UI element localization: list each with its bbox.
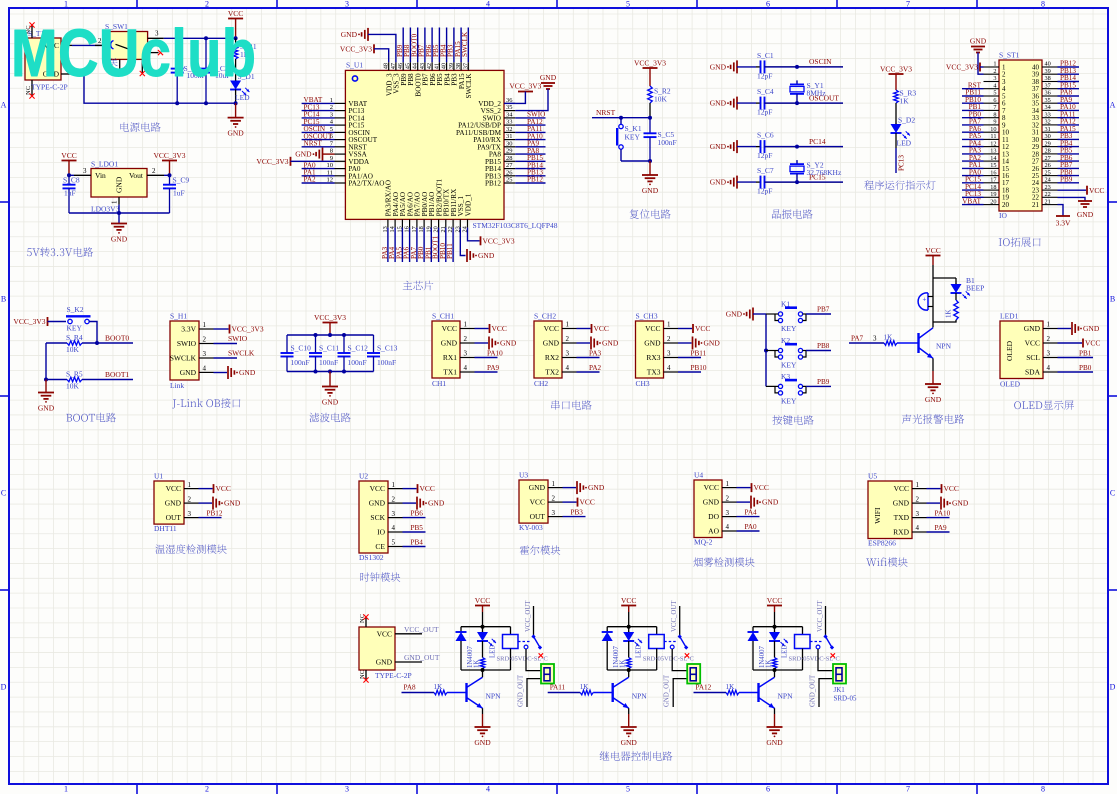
title 电源电路 [120, 122, 160, 132]
svg-text:SWCLK: SWCLK [228, 349, 255, 358]
svg-text:1: 1 [726, 480, 730, 488]
svg-text:GND: GND [704, 339, 721, 348]
svg-text:PB9: PB9 [817, 378, 830, 386]
ground GND filter [322, 372, 339, 407]
svg-text:SWCLK: SWCLK [170, 354, 197, 363]
svg-text:5: 5 [626, 785, 630, 794]
svg-text:PB6: PB6 [411, 510, 424, 518]
svg-text:S_C6: S_C6 [757, 131, 774, 140]
power port VCC relay [621, 596, 636, 627]
module U5 ESP8266 WIFI [868, 472, 927, 548]
svg-text:VCC_OUT: VCC_OUT [671, 600, 678, 632]
svg-text:VCC_3V3: VCC_3V3 [13, 317, 45, 326]
svg-text:PA10: PA10 [487, 350, 503, 358]
power port VCC relay [767, 596, 782, 627]
svg-text:GND: GND [369, 499, 386, 508]
svg-text:PB10: PB10 [691, 364, 707, 372]
svg-text:VCC: VCC [420, 484, 435, 493]
svg-text:23: 23 [1045, 184, 1051, 191]
diode 1N4007 flyback [748, 627, 767, 670]
svg-text:28: 28 [1045, 148, 1051, 155]
svg-text:TX2: TX2 [545, 368, 559, 377]
svg-text:PA9: PA9 [487, 364, 500, 372]
svg-text:6: 6 [993, 97, 996, 104]
ground GND oled [1058, 322, 1100, 335]
power port VCC_3V3 jlink [214, 325, 264, 334]
capacitor S_C11 100nF [309, 335, 339, 372]
svg-text:1: 1 [552, 480, 556, 488]
svg-text:SWIO: SWIO [228, 334, 248, 343]
svg-text:39: 39 [448, 63, 455, 69]
svg-text:VCC: VCC [580, 498, 595, 507]
svg-text:12pF: 12pF [757, 108, 772, 117]
capacitor S_C7 12pF with GND and PC15 [710, 166, 843, 196]
junction dots reset [648, 116, 652, 120]
svg-text:GND: GND [227, 129, 244, 138]
svg-text:OUT: OUT [530, 512, 546, 521]
ground GND boot [38, 380, 55, 413]
svg-text:KY-003: KY-003 [519, 523, 543, 532]
svg-text:VDD_1: VDD_1 [464, 193, 472, 216]
svg-text:PA2/TX/AO: PA2/TX/AO [348, 180, 384, 188]
wire LDO bottom rail [69, 212, 170, 214]
svg-text:GND: GND [478, 251, 495, 260]
svg-text:14: 14 [990, 155, 997, 162]
wire relay top rail [461, 626, 511, 628]
svg-text:4: 4 [566, 364, 570, 372]
module U2 DS1302 [359, 472, 403, 563]
wire alarm top node [933, 277, 956, 279]
svg-text:PA8: PA8 [404, 684, 417, 692]
svg-text:GND: GND [710, 63, 727, 72]
svg-text:S_R5: S_R5 [66, 370, 83, 379]
power port GND MCU top [341, 28, 396, 62]
svg-text:1uF: 1uF [64, 188, 76, 197]
module U3 KY-003 [519, 471, 563, 533]
svg-text:VCC: VCC [704, 483, 719, 492]
svg-text:GND: GND [165, 499, 182, 508]
LED S_D2 [891, 116, 916, 149]
svg-text:8: 8 [1041, 0, 1045, 9]
svg-text:3.3V: 3.3V [1056, 219, 1071, 228]
power port VCC_3V3 IO pin1 [946, 63, 984, 72]
svg-text:35: 35 [1045, 97, 1051, 104]
svg-text:2: 2 [203, 336, 207, 344]
relay contact switch [664, 600, 689, 658]
svg-text:38: 38 [1045, 75, 1051, 82]
svg-text:1: 1 [111, 200, 119, 204]
wire GND_OUT relay [518, 674, 542, 707]
resistor S_R1 1K [233, 38, 257, 80]
svg-text:B: B [1, 295, 6, 304]
svg-text:32: 32 [1045, 119, 1051, 126]
svg-text:5: 5 [392, 539, 396, 547]
svg-text:OSCIN: OSCIN [809, 57, 832, 66]
svg-text:PC14: PC14 [809, 137, 826, 146]
svg-text:SWCLK: SWCLK [461, 31, 469, 57]
svg-text:2: 2 [993, 68, 996, 75]
svg-text:4: 4 [916, 524, 920, 532]
svg-text:34: 34 [506, 111, 513, 118]
svg-text:CH2: CH2 [534, 379, 548, 388]
svg-text:CH1: CH1 [432, 379, 446, 388]
svg-text:KEY: KEY [625, 133, 641, 142]
power port VCC_3V3 MCU VDDA [256, 157, 334, 166]
svg-text:3: 3 [345, 0, 349, 9]
svg-text:19: 19 [990, 191, 996, 198]
svg-text:2: 2 [1047, 335, 1051, 343]
wire keys rail [765, 314, 767, 386]
svg-text:S_C13: S_C13 [377, 344, 398, 353]
svg-text:GND: GND [295, 150, 312, 159]
wire GND_OUT relay [664, 674, 688, 707]
svg-text:PB0: PB0 [1079, 364, 1092, 372]
svg-text:LED: LED [782, 645, 789, 658]
svg-text:VCC: VCC [370, 484, 385, 493]
capacitor S_C5 100nF [644, 118, 677, 161]
svg-text:2: 2 [205, 785, 209, 794]
capacitor S_C8 1uF [63, 175, 80, 213]
terminal block JK [541, 664, 554, 684]
svg-text:VCC: VCC [621, 596, 636, 605]
svg-text:21: 21 [1032, 201, 1040, 209]
logo MCUclub [11, 16, 256, 91]
svg-text:10: 10 [990, 126, 996, 133]
svg-text:GND_OUT: GND_OUT [664, 674, 671, 707]
title 串口电路 [551, 400, 591, 410]
svg-text:GND: GND [952, 499, 969, 508]
svg-text:VCC_OUT: VCC_OUT [525, 600, 532, 632]
power port GND MCU VSSA [295, 148, 334, 161]
svg-text:3: 3 [916, 510, 920, 518]
svg-text:24: 24 [1045, 177, 1052, 184]
module U4 MQ-2 [694, 471, 737, 547]
svg-text:38: 38 [455, 63, 462, 69]
svg-text:STM32F103C8T6_LQFP48: STM32F103C8T6_LQFP48 [473, 221, 558, 230]
svg-text:AO: AO [708, 527, 719, 536]
svg-text:NPN: NPN [936, 342, 952, 351]
crystal S_Y1 8MHz [790, 80, 826, 103]
svg-text:SDA: SDA [1025, 368, 1041, 377]
svg-text:3: 3 [667, 350, 671, 358]
power port VCC_3V3 MCU top [340, 44, 389, 62]
svg-text:S_CH2: S_CH2 [534, 312, 556, 321]
svg-text:VCC: VCC [530, 498, 545, 507]
svg-text:BOOT1: BOOT1 [105, 370, 129, 379]
capacitor S_C2 100nF [171, 38, 206, 103]
svg-text:7: 7 [906, 0, 910, 9]
svg-text:17: 17 [990, 177, 996, 184]
svg-text:100nF: 100nF [348, 358, 367, 367]
svg-text:46: 46 [397, 63, 404, 69]
resistor S_R4 10K BOOT0 [46, 333, 133, 354]
svg-text:PB8: PB8 [817, 342, 830, 350]
connector S_ST1 IO header [984, 51, 1058, 221]
svg-text:GND_OUT: GND_OUT [404, 653, 440, 662]
capacitor S_C12 100nF [338, 335, 369, 372]
svg-text:26: 26 [1045, 162, 1051, 169]
svg-text:GND: GND [703, 498, 720, 507]
relay coil SRD-05VDC-SL-C [643, 627, 694, 670]
svg-text:VCC: VCC [1025, 339, 1040, 348]
MCU left pins [327, 97, 385, 188]
svg-text:TXD: TXD [894, 513, 910, 522]
title 滤波电路 [309, 413, 350, 423]
svg-text:GND: GND [710, 142, 727, 151]
svg-text:S_C12: S_C12 [348, 344, 369, 353]
svg-text:D: D [1110, 683, 1116, 692]
svg-text:VCC: VCC [61, 151, 76, 160]
svg-text:S_CH1: S_CH1 [432, 312, 454, 321]
svg-text:U2: U2 [359, 472, 368, 481]
svg-text:2: 2 [566, 335, 570, 343]
svg-text:KEY: KEY [781, 361, 797, 370]
svg-text:GND: GND [925, 395, 942, 404]
svg-text:2: 2 [916, 495, 920, 503]
svg-text:VCC_3V3: VCC_3V3 [483, 236, 515, 245]
power port VCC at LDO [61, 151, 76, 175]
svg-text:39: 39 [1045, 68, 1051, 75]
svg-text:VCC: VCC [767, 596, 782, 605]
svg-text:7: 7 [906, 785, 910, 794]
svg-text:8: 8 [1041, 785, 1045, 794]
relay contact switch [518, 600, 543, 658]
title 温湿度检测模块 [155, 544, 226, 554]
wire relay contact to terminal [526, 649, 541, 671]
svg-text:VCC: VCC [166, 484, 181, 493]
svg-text:SWCLK: SWCLK [465, 73, 473, 99]
svg-text:8MHz: 8MHz [807, 88, 827, 97]
svg-text:PB1: PB1 [1079, 349, 1092, 357]
svg-text:PA10: PA10 [935, 510, 951, 518]
svg-text:GND: GND [642, 186, 659, 195]
junction dot GND rail [234, 101, 238, 105]
wires MCU bottom net labels [381, 228, 454, 262]
svg-text:48: 48 [383, 63, 390, 69]
svg-text:VCC: VCC [695, 324, 710, 333]
svg-text:1: 1 [1047, 321, 1051, 329]
svg-text:4: 4 [667, 364, 671, 372]
svg-text:GND: GND [441, 339, 458, 348]
net label NRST wire [592, 108, 650, 118]
svg-text:VCC_3V3: VCC_3V3 [946, 63, 978, 72]
svg-text:U4: U4 [694, 471, 703, 480]
wire relay contact to terminal [672, 649, 687, 671]
svg-text:TYPE-C-2P: TYPE-C-2P [375, 671, 412, 680]
svg-text:RX3: RX3 [646, 353, 660, 362]
power port VCC_3V3 filter [314, 313, 346, 335]
resistor 1K relay [474, 650, 485, 670]
svg-text:11: 11 [990, 133, 996, 140]
svg-text:34: 34 [1045, 104, 1052, 111]
svg-text:KEY: KEY [781, 396, 797, 405]
svg-text:2: 2 [152, 167, 156, 175]
svg-text:SCL: SCL [1026, 353, 1040, 362]
title 晶振电路 [772, 209, 813, 219]
svg-text:40: 40 [1045, 61, 1051, 68]
svg-text:100nF: 100nF [377, 358, 396, 367]
relay contact switch [810, 600, 835, 658]
svg-text:LED: LED [897, 139, 912, 148]
LED S_D1 [230, 72, 255, 103]
resistor S_R2 10K [648, 86, 671, 118]
relay coil SRD-05VDC-SL-C [789, 627, 840, 670]
connector S_H1 J-Link [170, 312, 214, 391]
svg-text:S_ST1: S_ST1 [999, 51, 1020, 60]
svg-text:GND_OUT: GND_OUT [810, 674, 817, 707]
svg-text:1uF: 1uF [173, 188, 185, 197]
title 按键电路 [772, 415, 813, 425]
net label SWIO jlink [214, 334, 248, 344]
svg-text:BEEP: BEEP [966, 284, 984, 293]
title IO拓展口 [999, 237, 1041, 247]
svg-text:A: A [1, 101, 7, 110]
svg-text:RXD: RXD [893, 528, 909, 537]
wire relay top rail [753, 626, 803, 628]
svg-text:GND: GND [474, 738, 491, 747]
svg-text:RX2: RX2 [545, 353, 559, 362]
svg-text:4: 4 [486, 0, 490, 9]
svg-text:SCK: SCK [370, 513, 385, 522]
svg-text:3: 3 [873, 335, 877, 343]
ground GND keys [726, 308, 766, 321]
svg-text:2: 2 [392, 495, 396, 503]
svg-text:SRD-05: SRD-05 [834, 695, 857, 703]
svg-text:GND: GND [239, 368, 256, 377]
svg-text:PB7: PB7 [817, 306, 830, 314]
svg-text:7: 7 [993, 104, 996, 111]
svg-text:GND: GND [38, 404, 55, 413]
svg-text:GND: GND [529, 483, 546, 492]
svg-text:OLED: OLED [1000, 380, 1021, 389]
no-ERC markers on SW1 [140, 50, 163, 76]
connector TYPE-C-2P power in [359, 614, 422, 680]
key S_K2 [66, 305, 97, 343]
ground GND jlink [214, 366, 256, 379]
svg-text:2: 2 [667, 335, 671, 343]
svg-text:GND: GND [115, 176, 124, 193]
svg-text:GND: GND [710, 178, 727, 187]
diode 1N4007 flyback [602, 627, 621, 670]
terminal block JK [833, 664, 857, 703]
resistor 1K base with PA7 [849, 333, 919, 345]
svg-text:22: 22 [1045, 191, 1051, 198]
svg-text:VCC_3V3: VCC_3V3 [880, 65, 912, 74]
power port VCC [228, 9, 243, 38]
svg-text:DHT11: DHT11 [154, 524, 177, 533]
svg-text:D: D [1, 683, 7, 692]
svg-text:U1: U1 [154, 472, 163, 481]
wire boot left rail [45, 343, 47, 380]
svg-text:VCC_3V3: VCC_3V3 [314, 313, 346, 322]
svg-text:31: 31 [1045, 126, 1051, 133]
wire relay bottom rail [753, 669, 803, 671]
svg-text:33: 33 [1045, 111, 1051, 118]
svg-text:S_D2: S_D2 [898, 116, 915, 125]
svg-text:KEY: KEY [67, 324, 83, 333]
svg-text:1K: 1K [620, 660, 627, 668]
title 霍尔模块 [520, 545, 560, 554]
svg-text:27: 27 [1045, 155, 1051, 162]
wire filter top rail [287, 334, 374, 336]
svg-text:28: 28 [506, 155, 513, 162]
resistor 1K relay [620, 650, 631, 670]
svg-text:1: 1 [464, 321, 468, 329]
svg-text:16: 16 [990, 169, 996, 176]
svg-text:1K: 1K [580, 683, 590, 691]
svg-text:GND: GND [766, 738, 783, 747]
svg-text:PB3: PB3 [571, 509, 584, 517]
capacitor S_C3 10uF [200, 38, 231, 103]
ground GND alarm [925, 358, 942, 404]
title Wifi模块 [866, 557, 907, 566]
svg-text:3: 3 [993, 75, 996, 82]
svg-text:2: 2 [726, 494, 730, 502]
svg-text:27: 27 [506, 162, 513, 169]
svg-text:PB12: PB12 [527, 176, 543, 184]
svg-text:29: 29 [506, 148, 513, 155]
svg-text:BOOT0: BOOT0 [105, 334, 129, 343]
svg-text:8: 8 [993, 111, 996, 118]
svg-text:S_C4: S_C4 [757, 87, 774, 96]
svg-text:1K: 1K [900, 96, 910, 105]
wire LDO vin [69, 174, 74, 176]
resistor 1K base [694, 683, 759, 695]
svg-text:A: A [1110, 101, 1116, 110]
power port VCC_3V3 reset [634, 59, 666, 87]
svg-text:GND: GND [710, 99, 727, 108]
connector S_CH1 serial CH1 [432, 312, 475, 389]
svg-text:GND: GND [376, 658, 393, 667]
display LED1 OLED [1000, 312, 1058, 389]
svg-text:IO: IO [377, 528, 385, 537]
power port GND IO pin22 [1058, 197, 1094, 219]
svg-text:GND: GND [762, 498, 779, 507]
svg-text:1: 1 [64, 0, 68, 9]
connector S_CH2 serial CH2 [534, 312, 577, 389]
svg-text:SWIO: SWIO [177, 339, 197, 348]
svg-text:3: 3 [464, 350, 468, 358]
svg-text:S_CH3: S_CH3 [636, 312, 658, 321]
svg-text:VCC_3V3: VCC_3V3 [232, 325, 264, 334]
svg-text:MCUclub: MCUclub [11, 16, 256, 91]
svg-text:VCC: VCC [544, 324, 559, 333]
svg-text:NC: NC [359, 670, 366, 679]
svg-text:VCC: VCC [944, 484, 959, 493]
svg-text:PA2: PA2 [589, 364, 602, 372]
svg-text:2: 2 [205, 0, 209, 9]
net label PB1 oled [1058, 349, 1094, 357]
key K1 PB7 [766, 300, 806, 334]
buzzer B1 [918, 293, 933, 322]
svg-text:VCC: VCC [645, 324, 660, 333]
LED relay [477, 627, 497, 658]
power port VCC alarm [925, 246, 940, 278]
svg-text:GND: GND [1024, 324, 1041, 333]
svg-text:GND: GND [602, 339, 619, 348]
resistor 1K base [402, 683, 467, 695]
svg-text:PB5: PB5 [411, 524, 424, 532]
power port GND MCU VSS_1 [460, 228, 495, 262]
svg-text:GND: GND [543, 339, 560, 348]
svg-text:PC13: PC13 [898, 155, 906, 171]
switch S_SW1 [95, 22, 164, 73]
capacitor S_C10 100nF [281, 335, 312, 372]
svg-text:2: 2 [552, 494, 556, 502]
svg-text:CE: CE [375, 542, 385, 551]
connector S_CH3 serial CH3 [636, 312, 679, 389]
svg-text:6: 6 [766, 785, 770, 794]
